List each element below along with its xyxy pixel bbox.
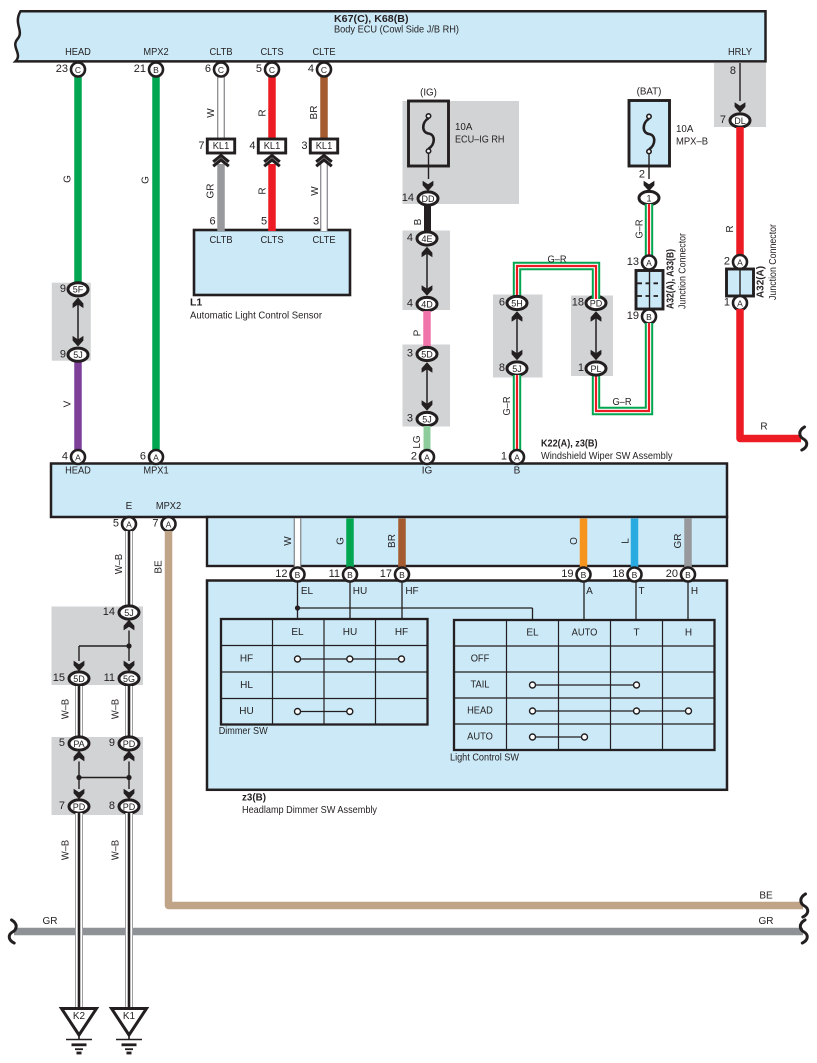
svg-text:R: R bbox=[760, 422, 767, 433]
svg-text:GR: GR bbox=[759, 916, 774, 927]
wire LG from 5J to IG 2(A) bbox=[424, 426, 431, 452]
gray shade connector 5H/5J bbox=[493, 295, 543, 378]
svg-text:H: H bbox=[685, 628, 692, 639]
svg-text:5: 5 bbox=[256, 63, 262, 75]
svg-text:R: R bbox=[725, 225, 736, 232]
wire G from MPX2 21(B) to MPX1 6(A) bbox=[152, 75, 160, 452]
svg-text:HU: HU bbox=[353, 586, 367, 597]
svg-text:A: A bbox=[737, 257, 743, 267]
svg-text:4: 4 bbox=[407, 298, 413, 310]
svg-text:20: 20 bbox=[666, 568, 678, 580]
svg-text:W: W bbox=[283, 536, 294, 546]
pin 4(A) HEAD bbox=[71, 450, 85, 464]
svg-text:6: 6 bbox=[205, 63, 211, 75]
pin 5(C) CLTS bbox=[265, 63, 279, 77]
svg-text:HEAD: HEAD bbox=[65, 466, 91, 477]
svg-text:CLTE: CLTE bbox=[312, 47, 335, 58]
svg-text:HU: HU bbox=[239, 706, 253, 717]
svg-text:AUTO: AUTO bbox=[467, 732, 493, 743]
svg-text:MPX1: MPX1 bbox=[143, 466, 169, 477]
Windshield Wiper SW Assembly block K22(A), z3(B) bbox=[51, 464, 727, 518]
svg-text:BE: BE bbox=[154, 560, 165, 574]
svg-text:4: 4 bbox=[62, 451, 68, 463]
svg-text:CLTB: CLTB bbox=[209, 47, 232, 58]
svg-text:13: 13 bbox=[627, 256, 639, 268]
svg-text:O: O bbox=[569, 537, 580, 545]
svg-text:PD: PD bbox=[123, 802, 136, 812]
svg-text:14: 14 bbox=[402, 192, 414, 204]
svg-text:3: 3 bbox=[313, 216, 319, 228]
connector 7 DL bbox=[730, 114, 750, 127]
node A feed bbox=[583, 582, 585, 621]
svg-text:A: A bbox=[514, 452, 520, 462]
svg-text:4E: 4E bbox=[421, 234, 432, 244]
arrow into DD bbox=[423, 181, 434, 192]
wire R from DL to 2(A) bbox=[736, 127, 744, 258]
wire G-R from PD to 5H bbox=[517, 266, 596, 299]
svg-text:4D: 4D bbox=[421, 299, 433, 309]
shield connector KL1 3 bbox=[310, 139, 337, 153]
connector 7 PD bbox=[69, 800, 89, 813]
wire R from shield to L1 CLTS bbox=[268, 164, 276, 231]
svg-text:K1: K1 bbox=[123, 1011, 136, 1022]
svg-text:HRLY: HRLY bbox=[728, 47, 752, 58]
connector 8 PD bbox=[119, 800, 139, 813]
svg-text:5J: 5J bbox=[512, 364, 522, 374]
gray shade connector PA/PD/PD/PD bbox=[52, 737, 144, 815]
connector pair 5F/5J bbox=[68, 283, 88, 296]
pin 19(B) bbox=[577, 568, 591, 582]
wire GR to 20(B) bbox=[684, 519, 692, 569]
pin 4(C) CLTE bbox=[317, 63, 331, 77]
wire O to 19(B) bbox=[580, 519, 588, 569]
svg-text:Junction Connector: Junction Connector bbox=[677, 233, 689, 309]
wire W-B from 5G to PD bbox=[125, 686, 133, 738]
wire G-R from 19(B) to PL bbox=[596, 323, 649, 411]
svg-text:B: B bbox=[646, 312, 652, 322]
crossover links bbox=[74, 751, 85, 762]
connector 15 5D bbox=[69, 672, 89, 685]
gray shade connector 5J/5D/5G bbox=[52, 607, 144, 686]
svg-text:MPX–B: MPX–B bbox=[676, 136, 708, 148]
svg-text:ECU–IG RH: ECU–IG RH bbox=[455, 134, 505, 146]
svg-text:B: B bbox=[153, 65, 159, 75]
svg-text:10A: 10A bbox=[676, 123, 693, 135]
svg-text:CLTS: CLTS bbox=[260, 47, 283, 58]
wire G to 11(B) bbox=[346, 519, 354, 569]
svg-text:5: 5 bbox=[59, 737, 65, 749]
junction oval 1 bbox=[639, 191, 659, 204]
HRLY lead 8 bbox=[739, 63, 741, 101]
svg-text:A: A bbox=[737, 298, 743, 308]
svg-text:DD: DD bbox=[422, 194, 435, 204]
gray shade behind HRLY connector bbox=[714, 63, 766, 127]
ground K2 bbox=[62, 1009, 97, 1036]
svg-text:(BAT): (BAT) bbox=[637, 86, 662, 98]
svg-text:K22(A), z3(B): K22(A), z3(B) bbox=[541, 438, 598, 450]
svg-text:2: 2 bbox=[411, 451, 417, 463]
svg-text:5D: 5D bbox=[73, 674, 85, 684]
svg-text:A: A bbox=[424, 452, 430, 462]
svg-text:1: 1 bbox=[501, 451, 507, 463]
Body ECU (Cowl Side J/B RH) block K67(C), K68(B) bbox=[15, 11, 765, 61]
svg-text:4: 4 bbox=[249, 140, 255, 152]
svg-text:AUTO: AUTO bbox=[572, 628, 598, 639]
svg-text:6: 6 bbox=[140, 451, 146, 463]
wire P from 4D to 5D bbox=[423, 311, 431, 348]
Light Control SW contacts AUTO row bbox=[533, 736, 585, 738]
svg-text:EL: EL bbox=[301, 586, 314, 597]
svg-text:(IG): (IG) bbox=[420, 87, 437, 99]
svg-text:OFF: OFF bbox=[471, 654, 490, 665]
svg-text:DL: DL bbox=[734, 116, 746, 126]
svg-text:L1: L1 bbox=[190, 297, 202, 309]
svg-text:GR: GR bbox=[673, 534, 684, 549]
svg-text:A: A bbox=[75, 452, 81, 462]
Light Control SW contacts TAIL row bbox=[533, 684, 637, 686]
wire BR to 17(B) bbox=[398, 519, 406, 569]
wire GR across bottom bbox=[14, 928, 803, 936]
svg-text:GR: GR bbox=[43, 916, 58, 927]
svg-text:C: C bbox=[269, 65, 275, 75]
svg-text:A: A bbox=[126, 519, 132, 529]
svg-text:MPX2: MPX2 bbox=[143, 47, 169, 58]
connector 11 5G bbox=[119, 672, 139, 685]
pin 23(C) HEAD bbox=[71, 63, 85, 77]
pin 18(B) bbox=[628, 568, 642, 582]
svg-text:11: 11 bbox=[104, 672, 115, 684]
svg-text:BR: BR bbox=[387, 534, 398, 548]
svg-text:3: 3 bbox=[407, 348, 413, 360]
svg-text:8: 8 bbox=[499, 362, 505, 374]
gray shade connector 4E/4D bbox=[403, 231, 451, 311]
arrow into junction 1 bbox=[644, 181, 655, 192]
svg-text:IG: IG bbox=[422, 466, 433, 477]
svg-text:19: 19 bbox=[627, 310, 639, 322]
svg-text:HF: HF bbox=[405, 586, 418, 597]
svg-text:E: E bbox=[126, 501, 133, 512]
svg-text:HU: HU bbox=[343, 627, 357, 638]
svg-text:G: G bbox=[336, 537, 347, 545]
svg-text:2: 2 bbox=[639, 169, 645, 181]
svg-text:W–B: W–B bbox=[111, 699, 122, 720]
svg-text:HF: HF bbox=[240, 654, 253, 665]
svg-text:V: V bbox=[63, 400, 74, 407]
svg-text:B: B bbox=[413, 218, 424, 225]
node T feed bbox=[635, 582, 637, 621]
wire W from shield to L1 CLTE bbox=[320, 164, 328, 231]
svg-text:A32(A), A33(B): A32(A), A33(B) bbox=[665, 249, 677, 309]
node H feed bbox=[687, 582, 689, 621]
svg-text:3: 3 bbox=[407, 413, 413, 425]
svg-text:W–B: W–B bbox=[61, 840, 72, 861]
svg-text:A: A bbox=[166, 519, 172, 529]
svg-text:Dimmer SW: Dimmer SW bbox=[219, 725, 268, 737]
svg-text:W: W bbox=[310, 186, 321, 196]
wire L to 18(B) bbox=[631, 519, 639, 569]
svg-text:MPX2: MPX2 bbox=[156, 501, 182, 512]
svg-text:18: 18 bbox=[572, 297, 584, 309]
Headlamp Dimmer SW Assembly box z3(B) bbox=[207, 581, 727, 790]
shield connector KL1 4 bbox=[258, 139, 285, 153]
junction connector A32(A) bbox=[733, 255, 747, 269]
svg-text:10A: 10A bbox=[455, 121, 472, 133]
gray shade behind IG fuse block bbox=[403, 101, 520, 204]
connector bar between wiper SW and dimmer SW bbox=[207, 517, 727, 566]
svg-text:G: G bbox=[141, 176, 152, 184]
connector pair 5H/5J bbox=[507, 296, 527, 309]
svg-text:HL: HL bbox=[240, 680, 253, 691]
node HF feed bbox=[401, 582, 403, 620]
Dimmer SW contacts HF row bbox=[298, 658, 402, 660]
Light Control SW contacts HEAD row bbox=[533, 710, 689, 712]
svg-text:15: 15 bbox=[53, 672, 65, 684]
wire G-R from 1 to 13(A) bbox=[645, 204, 653, 259]
svg-text:CLTB: CLTB bbox=[209, 235, 232, 246]
svg-text:G: G bbox=[63, 175, 74, 183]
pin 1(A) B bbox=[510, 450, 524, 464]
connector 14 DD bbox=[418, 192, 438, 205]
svg-text:Windshield Wiper SW Assembly: Windshield Wiper SW Assembly bbox=[541, 450, 673, 462]
svg-text:7: 7 bbox=[198, 140, 204, 152]
pin 11(B) bbox=[343, 568, 357, 582]
svg-text:23: 23 bbox=[56, 63, 68, 75]
svg-text:BE: BE bbox=[759, 891, 773, 902]
svg-text:5J: 5J bbox=[73, 350, 83, 360]
svg-text:B: B bbox=[685, 570, 691, 580]
svg-text:C: C bbox=[321, 65, 327, 75]
svg-text:A: A bbox=[586, 586, 593, 597]
svg-text:CLTE: CLTE bbox=[312, 235, 335, 246]
svg-text:EL: EL bbox=[526, 628, 539, 639]
Dimmer SW table bbox=[272, 619, 274, 725]
svg-text:PD: PD bbox=[123, 739, 136, 749]
wire W-B from 7 PD to ground K2 bbox=[75, 813, 83, 1009]
svg-text:A: A bbox=[646, 258, 652, 268]
svg-text:LG: LG bbox=[412, 435, 423, 449]
wire V from 5J to HEAD 4(A) bbox=[74, 360, 82, 452]
pin 12(B) bbox=[291, 568, 305, 582]
wire W-B from E 5(A) to 5J bbox=[125, 531, 133, 607]
svg-text:B: B bbox=[295, 570, 301, 580]
svg-text:GR: GR bbox=[206, 184, 217, 199]
svg-text:B: B bbox=[347, 570, 353, 580]
svg-text:21: 21 bbox=[134, 63, 146, 75]
svg-text:5J: 5J bbox=[422, 414, 432, 424]
svg-text:A: A bbox=[153, 452, 159, 462]
svg-text:4: 4 bbox=[407, 232, 413, 244]
svg-text:5G: 5G bbox=[123, 674, 135, 684]
wire W to 12(B) bbox=[294, 519, 302, 569]
svg-text:HEAD: HEAD bbox=[467, 706, 493, 717]
svg-text:B: B bbox=[632, 570, 638, 580]
svg-text:5H: 5H bbox=[511, 298, 523, 308]
wire G from HEAD 23(C) to 5F bbox=[74, 75, 82, 284]
svg-text:Light Control SW: Light Control SW bbox=[450, 752, 519, 764]
svg-text:A32(A): A32(A) bbox=[755, 266, 767, 298]
wire GR from shield to L1 CLTB bbox=[217, 164, 225, 231]
svg-text:W–B: W–B bbox=[61, 699, 72, 720]
pin 6(C) CLTB bbox=[214, 63, 228, 77]
svg-text:KL1: KL1 bbox=[316, 141, 333, 152]
pin 6(A) MPX1 bbox=[149, 450, 163, 464]
svg-text:BR: BR bbox=[309, 106, 320, 120]
connector 5 PA bbox=[69, 737, 89, 750]
connector pair 5D/5J bbox=[417, 347, 437, 360]
svg-text:1: 1 bbox=[646, 193, 651, 203]
node EL feed bbox=[297, 582, 299, 620]
svg-text:Body ECU (Cowl Side J/B RH): Body ECU (Cowl Side J/B RH) bbox=[334, 24, 459, 36]
svg-text:KL1: KL1 bbox=[264, 141, 281, 152]
wire R from 1(A) to right edge bbox=[740, 309, 801, 439]
svg-text:B: B bbox=[399, 570, 405, 580]
svg-text:C: C bbox=[218, 65, 224, 75]
svg-text:14: 14 bbox=[103, 606, 115, 618]
gray shade connector PD/PL bbox=[571, 296, 613, 377]
svg-text:T: T bbox=[638, 586, 644, 597]
svg-text:T: T bbox=[633, 628, 639, 639]
connector pair PD/PL bbox=[586, 296, 606, 309]
svg-text:7: 7 bbox=[59, 800, 65, 812]
ground K1 bbox=[112, 1009, 147, 1036]
connector pair 4E/4D bbox=[417, 232, 437, 245]
pin 2(A) IG bbox=[420, 450, 434, 464]
svg-text:G–R: G–R bbox=[502, 396, 513, 415]
svg-text:PL: PL bbox=[590, 364, 601, 374]
svg-text:12: 12 bbox=[275, 568, 287, 580]
svg-text:1: 1 bbox=[578, 362, 584, 374]
svg-text:2: 2 bbox=[724, 256, 730, 268]
svg-text:18: 18 bbox=[612, 568, 624, 580]
svg-text:G–R: G–R bbox=[635, 219, 646, 238]
svg-text:5J: 5J bbox=[124, 608, 134, 618]
svg-text:Junction Connector: Junction Connector bbox=[767, 224, 779, 300]
svg-text:CLTS: CLTS bbox=[260, 235, 283, 246]
gray shade connector 5F/5J bbox=[52, 283, 91, 361]
junction connector A32(A), A33(B) bbox=[642, 256, 656, 270]
svg-text:11: 11 bbox=[329, 568, 340, 580]
svg-text:17: 17 bbox=[380, 568, 392, 580]
wire BE from MPX2 7(A) to right edge bbox=[169, 531, 804, 906]
svg-text:5: 5 bbox=[261, 216, 267, 228]
svg-text:W–B: W–B bbox=[114, 554, 125, 575]
svg-text:5F: 5F bbox=[73, 285, 84, 295]
svg-text:PD: PD bbox=[590, 298, 603, 308]
svg-text:Automatic Light Control Sensor: Automatic Light Control Sensor bbox=[190, 310, 322, 322]
svg-text:1: 1 bbox=[724, 297, 730, 309]
svg-text:B: B bbox=[581, 570, 587, 580]
wire G-R from 5J to B 1(A) bbox=[513, 375, 521, 452]
svg-text:B: B bbox=[514, 466, 521, 477]
svg-text:19: 19 bbox=[561, 568, 573, 580]
svg-text:EL: EL bbox=[291, 627, 304, 638]
pin 21(B) MPX2 bbox=[149, 63, 163, 77]
svg-text:6: 6 bbox=[499, 297, 505, 309]
shield connector KL1 7 bbox=[207, 139, 234, 153]
split to 5D and 5G bbox=[124, 620, 135, 631]
svg-text:G–R: G–R bbox=[612, 397, 631, 408]
wire R from CLTS 5(C) to KL1 bbox=[268, 75, 276, 140]
L1 Automatic Light Control Sensor box bbox=[194, 230, 350, 295]
pin 17(B) bbox=[395, 568, 409, 582]
svg-text:5: 5 bbox=[113, 518, 119, 530]
svg-text:PA: PA bbox=[73, 739, 84, 749]
node HU feed bbox=[349, 582, 351, 620]
svg-text:Headlamp Dimmer SW Assembly: Headlamp Dimmer SW Assembly bbox=[242, 804, 378, 816]
svg-text:KL1: KL1 bbox=[213, 141, 230, 152]
wire W-B from 8 PD to ground K1 bbox=[125, 813, 133, 1009]
svg-text:K2: K2 bbox=[73, 1011, 86, 1022]
svg-text:W: W bbox=[206, 108, 217, 118]
svg-text:PD: PD bbox=[73, 802, 86, 812]
svg-text:W–B: W–B bbox=[111, 840, 122, 861]
Light Control SW table bbox=[506, 620, 508, 750]
svg-text:5D: 5D bbox=[421, 349, 433, 359]
svg-text:z3(B): z3(B) bbox=[242, 792, 266, 804]
wire W-B from 5D to PA bbox=[75, 686, 83, 738]
svg-text:9: 9 bbox=[60, 348, 66, 360]
wire BR from CLTE 4(C) to KL1 bbox=[320, 75, 328, 140]
svg-text:7: 7 bbox=[152, 518, 158, 530]
wire W from CLTB 6(C) to KL1 bbox=[217, 75, 225, 140]
svg-text:HF: HF bbox=[395, 627, 408, 638]
svg-text:P: P bbox=[413, 329, 424, 336]
pin 5(A) E bbox=[122, 517, 136, 531]
svg-text:8: 8 bbox=[109, 800, 115, 812]
svg-text:8: 8 bbox=[730, 65, 736, 77]
pin 7(A) MPX2 bbox=[162, 517, 176, 531]
svg-text:9: 9 bbox=[60, 283, 66, 295]
svg-text:HEAD: HEAD bbox=[65, 47, 91, 58]
svg-text:9: 9 bbox=[109, 737, 115, 749]
svg-text:4: 4 bbox=[308, 63, 314, 75]
connector 14 5J bbox=[119, 606, 139, 619]
svg-text:G–R: G–R bbox=[547, 255, 566, 266]
svg-text:R: R bbox=[258, 187, 269, 194]
svg-text:7: 7 bbox=[720, 114, 726, 126]
wire B from DD to 4E bbox=[424, 205, 431, 233]
svg-text:R: R bbox=[258, 109, 269, 116]
pin 20(B) bbox=[681, 568, 695, 582]
svg-text:H: H bbox=[691, 586, 698, 597]
connector 9 PD bbox=[119, 737, 139, 750]
svg-text:6: 6 bbox=[209, 216, 215, 228]
svg-text:3: 3 bbox=[301, 140, 307, 152]
svg-text:TAIL: TAIL bbox=[471, 680, 490, 691]
svg-text:C: C bbox=[75, 65, 81, 75]
Dimmer SW contacts HU row bbox=[298, 711, 350, 713]
gray shade connector 5D/5J bbox=[403, 345, 451, 427]
svg-text:L: L bbox=[621, 538, 632, 544]
